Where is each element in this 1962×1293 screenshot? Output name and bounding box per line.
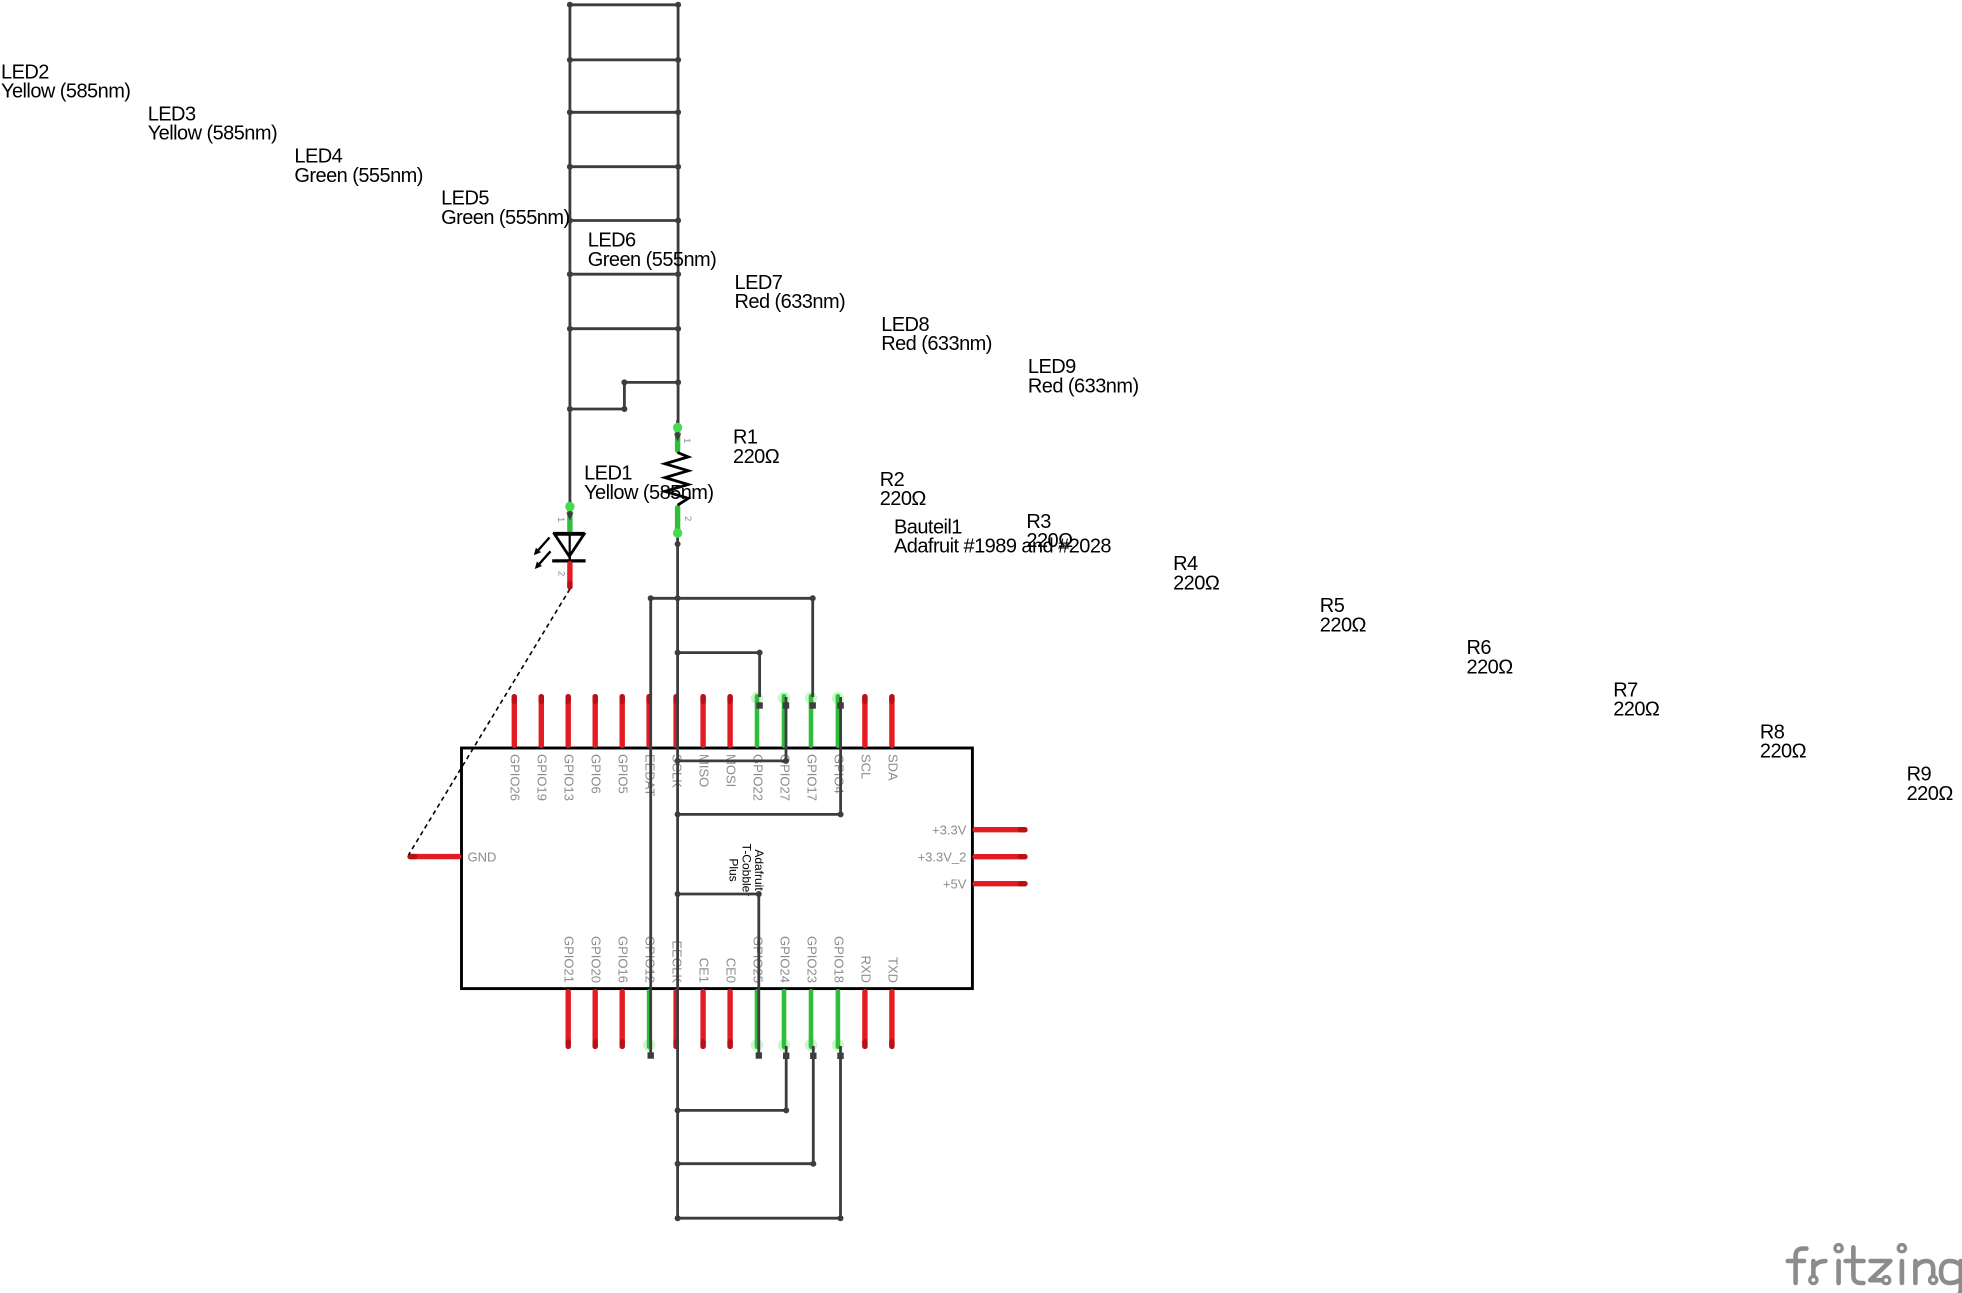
wire to GPIO18 horizontal xyxy=(678,1217,841,1220)
wire end GPIO18 xyxy=(837,1053,843,1059)
svg-text:GPIO21: GPIO21 xyxy=(562,936,577,983)
junction rung 6 left xyxy=(567,271,573,277)
junction branch mid xyxy=(675,595,681,601)
junction rung 3 left xyxy=(567,109,573,115)
svg-text:GPIO13: GPIO13 xyxy=(562,754,577,801)
wire to GPIO12 vertical xyxy=(649,598,652,1055)
svg-text:220Ω: 220Ω xyxy=(880,488,927,510)
wire end GPIO23 xyxy=(810,1053,816,1059)
label R6 xyxy=(1467,637,1514,678)
svg-text:+3.3V: +3.3V xyxy=(932,822,967,837)
svg-text:Red (633nm): Red (633nm) xyxy=(1028,375,1139,397)
wire end arrow on R1 pin1 xyxy=(674,434,681,442)
svg-text:GPIO20: GPIO20 xyxy=(589,936,604,983)
pin +3.3V_2 (right) xyxy=(918,849,1028,864)
wire right rail xyxy=(677,5,680,424)
svg-text:+5V: +5V xyxy=(943,876,967,891)
junction branch left xyxy=(648,595,654,601)
junction GPIO24 corner xyxy=(675,1107,681,1113)
pin GPIO27 (top) xyxy=(777,692,792,801)
pin GPIO16 (bottom) xyxy=(616,936,631,1049)
junction rung 2 right xyxy=(675,57,681,63)
wire end GPIO17 xyxy=(810,702,816,708)
junction rung 6 right xyxy=(675,271,681,277)
label LED3 xyxy=(148,103,277,144)
pin GPIO25 (bottom) xyxy=(750,936,765,1051)
junction GPIO4 corner xyxy=(675,811,681,817)
svg-text:RXD: RXD xyxy=(858,956,873,983)
wire branch horizontal y598 xyxy=(651,597,813,600)
wire to GPIO27 vertical xyxy=(785,697,788,761)
fritzing watermark xyxy=(1788,1245,1961,1293)
LED LED1 xyxy=(534,500,586,590)
svg-text:GPIO17: GPIO17 xyxy=(804,754,819,801)
pin GPIO23 (bottom) xyxy=(804,936,819,1051)
svg-text:GPIO5: GPIO5 xyxy=(616,754,631,794)
IC label Adafruit T-Cobbler Plus xyxy=(727,844,767,897)
wire to GPIO23 horizontal xyxy=(678,1162,814,1165)
pin CE1 (bottom) xyxy=(697,958,712,1049)
pin GPIO19 (top) xyxy=(535,694,550,801)
svg-text:TXD: TXD xyxy=(885,957,900,983)
junction GPIO23 corner xyxy=(675,1161,681,1167)
label LED8 xyxy=(881,314,992,355)
wire to GPIO25 vertical xyxy=(757,894,760,1056)
svg-text:GPIO24: GPIO24 xyxy=(777,936,792,983)
wire to GPIO22 horizontal xyxy=(678,651,760,654)
wire left rail xyxy=(569,5,572,503)
pin +3.3V (right) xyxy=(932,822,1028,837)
svg-text:220Ω: 220Ω xyxy=(733,446,780,468)
label R4 xyxy=(1173,553,1220,594)
junction GPIO22 corner xyxy=(675,650,681,656)
wire to GPIO4 horizontal xyxy=(678,813,841,816)
svg-text:220Ω: 220Ω xyxy=(1173,572,1220,594)
svg-text:CE1: CE1 xyxy=(697,958,712,983)
svg-text:Yellow (585nm): Yellow (585nm) xyxy=(1,81,130,103)
label LED6 xyxy=(588,230,716,271)
pin GPIO21 (bottom) xyxy=(562,936,577,1049)
pin GPIO13 (top) xyxy=(562,694,577,801)
svg-text:Green (555nm): Green (555nm) xyxy=(294,165,422,187)
wire to GPIO22 vertical xyxy=(758,653,761,697)
label LED5 xyxy=(441,188,569,229)
wire rung 5 xyxy=(570,219,678,222)
junction rung 7 right xyxy=(675,326,681,332)
label R5 xyxy=(1320,595,1367,636)
junction branch right xyxy=(810,595,816,601)
junction jog right xyxy=(675,379,681,385)
svg-text:220Ω: 220Ω xyxy=(1320,614,1367,636)
svg-text:+3.3V_2: +3.3V_2 xyxy=(918,849,967,864)
svg-text:GPIO4: GPIO4 xyxy=(831,754,846,794)
svg-text:1: 1 xyxy=(555,517,566,522)
wire rung 1 xyxy=(570,3,678,6)
wire rung 7 xyxy=(570,327,678,330)
junction rung 1 right xyxy=(675,2,681,8)
pin GPIO18 (bottom) xyxy=(831,936,846,1051)
svg-text:GPIO18: GPIO18 xyxy=(831,936,846,983)
pin TXD (bottom) xyxy=(885,957,900,1049)
svg-text:2: 2 xyxy=(556,571,567,576)
svg-text:Green (555nm): Green (555nm) xyxy=(588,249,716,271)
label R8 xyxy=(1760,721,1807,762)
svg-text:220Ω: 220Ω xyxy=(1467,657,1514,679)
pin MOSI (top) xyxy=(724,694,739,787)
junction GPIO4 corner2 xyxy=(838,811,844,817)
svg-text:SDA: SDA xyxy=(885,754,900,781)
pin MISO (top) xyxy=(697,694,712,787)
label Bauteil1 xyxy=(894,516,1111,557)
junction GPIO25 corner xyxy=(675,891,681,897)
label LED4 xyxy=(294,146,422,187)
svg-text:GPIO6: GPIO6 xyxy=(589,754,604,794)
junction GPIO18 corner2 xyxy=(838,1215,844,1221)
pin EEDAT (top) xyxy=(643,694,658,796)
wire end GPIO27 xyxy=(783,702,789,708)
svg-text:MOSI: MOSI xyxy=(724,754,739,787)
pin SCLK (top) xyxy=(670,694,685,788)
junction GPIO23 corner2 xyxy=(810,1161,816,1167)
junction GPIO18 corner xyxy=(675,1215,681,1221)
wire end GPIO4 xyxy=(837,702,843,708)
junction rung 2 left xyxy=(567,57,573,63)
wire end GPIO12 xyxy=(648,1052,654,1058)
junction rung 3 right xyxy=(675,109,681,115)
label R2 xyxy=(880,469,927,510)
wire bundle vertical from R1 xyxy=(676,537,679,1218)
junction GPIO24 corner2 xyxy=(783,1107,789,1113)
wire to GPIO4 vertical xyxy=(839,697,842,814)
pin +5V (right) xyxy=(943,876,1028,891)
wire to GPIO24 horizontal xyxy=(678,1109,787,1112)
wire end arrow on LED1 pin1 xyxy=(566,513,573,521)
label LED2 xyxy=(1,61,130,102)
svg-text:GPIO16: GPIO16 xyxy=(616,936,631,983)
ratsnest wire LED1 to GND xyxy=(409,589,570,855)
svg-text:220Ω: 220Ω xyxy=(1760,741,1807,763)
svg-text:Plus: Plus xyxy=(727,858,741,881)
junction GPIO27 corner xyxy=(675,758,681,764)
junction GPIO25 corner2 xyxy=(756,891,762,897)
pin GPIO26 (top) xyxy=(508,694,523,801)
wire rung 6 xyxy=(570,273,678,276)
svg-text:Red (633nm): Red (633nm) xyxy=(881,333,992,355)
label LED9 xyxy=(1028,356,1139,397)
wire to GPIO17 vertical xyxy=(811,598,814,697)
pin GPIO20 (bottom) xyxy=(589,936,604,1049)
pin EECLK (bottom) xyxy=(670,940,685,1049)
svg-text:220Ω: 220Ω xyxy=(1613,699,1660,721)
pin GPIO5 (top) xyxy=(616,694,631,794)
svg-text:GND: GND xyxy=(468,849,497,864)
label R9 xyxy=(1907,764,1954,805)
wire to GPIO27 horizontal xyxy=(678,760,786,763)
svg-text:2: 2 xyxy=(682,516,693,521)
pin GPIO17 (top) xyxy=(804,692,819,801)
wire to GPIO23 vertical xyxy=(812,1046,815,1164)
svg-text:Yellow (585nm): Yellow (585nm) xyxy=(148,123,277,145)
pin RXD (bottom) xyxy=(858,956,873,1049)
junction below R1 xyxy=(675,541,681,547)
svg-text:220Ω: 220Ω xyxy=(1907,783,1954,805)
svg-text:1: 1 xyxy=(681,438,692,443)
pin GPIO6 (top) xyxy=(589,694,604,794)
wire rung 2 xyxy=(570,59,678,62)
wire to GPIO24 vertical xyxy=(785,1046,788,1110)
pin GPIO4 (top) xyxy=(831,692,846,794)
svg-text:GPIO23: GPIO23 xyxy=(804,936,819,983)
pin CE0 (bottom) xyxy=(724,958,739,1049)
resistor R1 xyxy=(665,420,688,538)
junction rung 1 left xyxy=(567,2,573,8)
svg-text:GPIO26: GPIO26 xyxy=(508,754,523,801)
IC Bauteil1 Adafruit T-Cobbler Plus body xyxy=(462,748,973,989)
pin SDA (top) xyxy=(885,694,900,781)
wire end GPIO24 xyxy=(783,1053,789,1059)
svg-text:Red (633nm): Red (633nm) xyxy=(735,291,846,313)
wire rung 4 xyxy=(570,165,678,168)
svg-text:Green (555nm): Green (555nm) xyxy=(441,207,569,229)
pin GPIO22 (top) xyxy=(750,692,765,801)
junction GPIO22 corner2 xyxy=(757,650,763,656)
svg-text:Yellow (585nm): Yellow (585nm) xyxy=(584,482,713,504)
pin GND (left) xyxy=(407,849,496,864)
svg-text:GPIO19: GPIO19 xyxy=(535,754,550,801)
label LED7 xyxy=(735,272,846,313)
junction rung 5 right xyxy=(675,218,681,224)
wire end GPIO25 xyxy=(756,1052,762,1058)
junction rung 4 right xyxy=(675,164,681,170)
svg-text:Adafruit #1989 and #2028: Adafruit #1989 and #2028 xyxy=(894,536,1111,558)
junction rung 7 left xyxy=(567,326,573,332)
wire rung 3 xyxy=(570,111,678,114)
pin GPIO24 (bottom) xyxy=(777,936,792,1051)
label LED1 xyxy=(584,463,713,504)
junction rung 4 left xyxy=(567,164,573,170)
svg-text:CE0: CE0 xyxy=(724,958,739,983)
label R7 xyxy=(1613,679,1660,720)
junction jog corner top xyxy=(621,379,627,385)
junction rung 5 left xyxy=(567,218,573,224)
label R3 xyxy=(1026,511,1073,552)
wire jog xyxy=(570,382,678,409)
wire end GPIO22 xyxy=(756,702,762,708)
junction jog corner bottom xyxy=(621,406,627,412)
wire to GPIO25 horizontal xyxy=(678,893,759,896)
pin SCL (top) xyxy=(858,694,873,779)
junction jog left xyxy=(567,406,573,412)
svg-text:MISO: MISO xyxy=(697,754,712,787)
junction GPIO27 corner2 xyxy=(783,758,789,764)
pin GPIO12 (bottom) xyxy=(643,936,658,1051)
wire to GPIO18 vertical xyxy=(839,1046,842,1218)
svg-text:SCL: SCL xyxy=(858,754,873,779)
label R1 xyxy=(733,427,780,468)
